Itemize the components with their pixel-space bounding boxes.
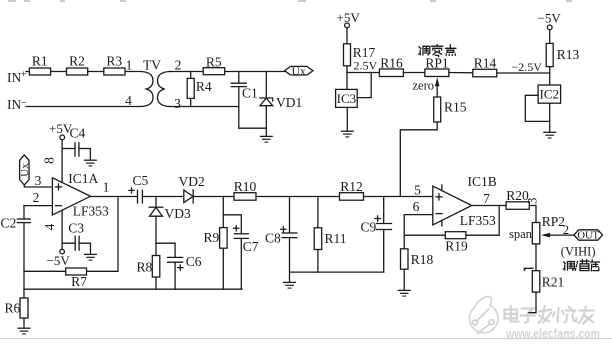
capacitor C6 — [168, 256, 183, 258]
svg-text:Ux: Ux — [19, 163, 31, 177]
resistor R4 — [187, 78, 194, 98]
svg-text:−5V: −5V — [538, 11, 562, 26]
top edge cut text specks — [8, 0, 572, 2]
svg-text:C6: C6 — [186, 254, 202, 269]
capacitor C4 — [74, 143, 76, 156]
wire C4 branch — [62, 149, 90, 160]
wire C3 branch — [62, 243, 90, 254]
wire C6 branch — [156, 243, 175, 289]
capacitor C7 — [234, 233, 248, 235]
svg-text:C3: C3 — [68, 221, 84, 236]
svg-text:C4: C4 — [70, 125, 86, 140]
svg-text:span: span — [509, 227, 533, 241]
capacitor C1 — [231, 82, 246, 84]
svg-text:R2: R2 — [69, 54, 85, 69]
svg-text:5: 5 — [414, 182, 421, 197]
svg-text:VD3: VD3 — [165, 206, 191, 221]
capacitor C8 — [282, 232, 297, 234]
wire R15 down to main line — [400, 122, 437, 197]
resistor R13 — [546, 43, 553, 66]
svg-text:C7: C7 — [243, 239, 259, 254]
transformer TV secondary winding — [158, 72, 170, 107]
resistor R7 — [66, 268, 87, 275]
svg-text:1: 1 — [103, 180, 110, 195]
svg-text:IC1B: IC1B — [468, 174, 497, 189]
svg-text:2.5V: 2.5V — [354, 59, 378, 73]
svg-text:−2.5V: −2.5V — [512, 60, 543, 74]
svg-text:www.elecfans.com: www.elecfans.com — [505, 327, 600, 341]
potentiometer RP1 — [425, 69, 449, 77]
ground under C4 — [84, 160, 97, 166]
op-amp IC1A — [52, 178, 90, 215]
watermark char dian — [505, 306, 519, 322]
wire R21 end stub — [529, 292, 536, 313]
svg-text:−: − — [21, 97, 27, 109]
-5V terminal left — [60, 249, 65, 254]
bottom rail — [24, 288, 242, 290]
svg-text:R7: R7 — [71, 274, 87, 289]
wire C1 branch — [239, 72, 266, 129]
svg-text:R5: R5 — [206, 54, 222, 69]
potentiometer RP2 — [532, 223, 540, 244]
svg-text:C1: C1 — [242, 86, 258, 101]
wire R20 to RP2 — [529, 206, 536, 223]
svg-text:6: 6 — [413, 199, 420, 214]
resistor R21 — [532, 271, 540, 292]
svg-text:R9: R9 — [204, 230, 220, 245]
wire main line — [91, 196, 433, 198]
ground under IC3 — [341, 131, 354, 137]
wire pin2 input — [24, 205, 52, 207]
svg-text:VD1: VD1 — [276, 95, 302, 110]
resistor R19 — [445, 232, 466, 239]
svg-text:IC1A: IC1A — [68, 171, 98, 186]
wire C8 branch — [289, 197, 291, 283]
wire output to R20 — [472, 205, 506, 207]
wire RP2 to R21 — [535, 244, 537, 271]
svg-text:+: + — [21, 69, 27, 81]
svg-text:R3: R3 — [106, 54, 122, 69]
wire 2.5V rail to R16 — [347, 72, 379, 74]
label tiaolingdian (zero adjust) — [419, 45, 456, 57]
svg-text:R6: R6 — [5, 300, 21, 315]
diode VD3 — [150, 207, 163, 216]
svg-text:3: 3 — [174, 96, 181, 111]
resistor R10 — [234, 193, 256, 201]
svg-text:RP2: RP2 — [542, 214, 565, 229]
bottom page rule — [0, 338, 612, 340]
svg-text:R16: R16 — [380, 55, 403, 70]
wire -5V through R13 to IC2 — [549, 30, 551, 85]
svg-text:LF353: LF353 — [73, 204, 109, 219]
svg-text:R15: R15 — [444, 99, 467, 114]
resistor R12 — [340, 193, 364, 201]
wire C9 branch — [383, 197, 385, 273]
svg-text:R12: R12 — [340, 179, 363, 194]
resistor R5 — [203, 68, 225, 75]
node OUT tag — [574, 230, 603, 240]
wire IC2 feedback loop — [525, 95, 549, 121]
svg-text:(VIHI): (VIHI) — [561, 244, 596, 258]
ground under VD1 — [260, 136, 273, 142]
svg-text:R8: R8 — [137, 260, 153, 275]
svg-text:C5: C5 — [133, 173, 149, 188]
watermark char shao — [553, 307, 577, 323]
pin 1 label rotated (tick) — [524, 267, 533, 269]
wire R18 branch — [403, 235, 405, 290]
wire R11 branch — [317, 197, 319, 273]
wire R8 branch — [155, 243, 157, 289]
wire RP1 to R14 — [449, 72, 473, 74]
wire pin6 input — [404, 215, 433, 236]
elecfans logo circle — [469, 296, 498, 334]
svg-text:1: 1 — [126, 57, 133, 72]
svg-text:TV: TV — [143, 57, 161, 72]
svg-text:C8: C8 — [265, 231, 281, 246]
svg-text:R18: R18 — [411, 252, 434, 267]
resistor R6 — [20, 298, 28, 318]
ground under C8 — [283, 282, 296, 288]
resistor R20 — [506, 202, 529, 210]
wiper arrow RP2 — [544, 234, 574, 236]
resistor R14 — [473, 69, 497, 77]
ground under R6 — [18, 328, 31, 334]
svg-text:RP1: RP1 — [425, 55, 448, 70]
svg-text:IC2: IC2 — [540, 87, 560, 102]
resistor R18 — [401, 249, 409, 269]
wire VD3 branch — [155, 197, 157, 244]
resistor R9 — [220, 228, 228, 249]
wire IN+ rail — [26, 71, 141, 73]
svg-text:VD2: VD2 — [179, 174, 205, 189]
svg-text:IN: IN — [7, 97, 21, 112]
wire IN- rail — [26, 106, 141, 108]
wire secondary bottom rail — [170, 106, 239, 108]
svg-text:7: 7 — [483, 191, 490, 206]
svg-text:Ux: Ux — [292, 66, 306, 78]
svg-text:R4: R4 — [196, 79, 212, 94]
wire R6 — [23, 289, 25, 327]
wire R14 to R13 node — [497, 72, 550, 74]
wire pin8 power — [61, 140, 63, 183]
wire IC3 to ground — [346, 107, 348, 130]
resistor R16 — [379, 69, 403, 77]
svg-text:IC3: IC3 — [337, 91, 357, 106]
wire pin3 input — [24, 185, 52, 187]
svg-text:4: 4 — [125, 93, 132, 108]
op-amp IC1B — [433, 186, 472, 225]
watermark char zi — [521, 309, 536, 323]
transformer TV primary winding — [141, 72, 153, 107]
svg-text:zero: zero — [413, 78, 435, 92]
IC3 box — [336, 89, 358, 107]
watermark char you — [579, 307, 595, 324]
svg-text:4: 4 — [42, 223, 57, 230]
svg-text:R11: R11 — [325, 231, 347, 246]
ground under C3 — [84, 254, 97, 260]
svg-text:3: 3 — [526, 198, 540, 204]
wire secondary top rail — [170, 71, 285, 73]
wire R9 branch — [222, 197, 224, 290]
svg-text:R19: R19 — [445, 239, 468, 254]
label tiaomandu (span adjust) — [563, 260, 599, 271]
resistor R11 — [314, 228, 322, 250]
svg-text:OUT: OUT — [577, 231, 599, 242]
wire C7 branch — [223, 215, 241, 289]
capacitor C9 — [377, 223, 392, 225]
svg-text:R10: R10 — [234, 179, 257, 194]
capacitor C3 — [74, 236, 76, 250]
svg-text:2: 2 — [563, 223, 569, 237]
capacitor C2 — [23, 206, 25, 290]
node Ux output tag — [285, 66, 313, 75]
diode VD1 zener — [260, 98, 273, 106]
wire R16 to RP1 — [403, 72, 425, 74]
capacitor C5 — [137, 190, 139, 203]
resistor R3 — [104, 68, 125, 75]
svg-text:C9: C9 — [361, 220, 377, 235]
svg-text:R14: R14 — [474, 56, 497, 71]
mid rail C8-R11-C9 — [290, 271, 384, 273]
svg-text:R21: R21 — [542, 274, 565, 289]
svg-text:−5V: −5V — [47, 253, 71, 268]
ground under R18 — [398, 290, 411, 296]
svg-text:2: 2 — [175, 57, 182, 72]
wire IC2 to ground — [549, 103, 551, 132]
svg-text:LF353: LF353 — [460, 213, 496, 228]
node Ux input tag (vertical) — [20, 155, 29, 185]
svg-text:IN: IN — [7, 70, 21, 85]
ground under IC2 — [543, 132, 556, 138]
svg-text:8: 8 — [42, 157, 57, 164]
wire VD1 branch — [265, 72, 267, 137]
wiper arrow RP1 — [436, 80, 438, 97]
wire +5V to R17 to IC3 — [346, 28, 348, 90]
resistor R15 — [434, 97, 441, 122]
svg-text:2: 2 — [33, 190, 40, 205]
svg-text:3: 3 — [35, 173, 42, 188]
wire IC3 feedback loop — [357, 73, 371, 98]
watermark char fa — [539, 306, 552, 323]
diode VD2 — [184, 190, 193, 203]
resistor R2 — [67, 68, 88, 75]
wire feedback R19 — [404, 206, 499, 236]
IC2 box — [538, 85, 561, 103]
resistor R8 — [152, 256, 160, 278]
wire R4 vertical — [190, 72, 192, 107]
wire pin4 power — [61, 210, 63, 249]
svg-text:R13: R13 — [557, 47, 580, 62]
svg-text:C2: C2 — [1, 215, 17, 230]
resistor R1 — [29, 68, 50, 75]
svg-text:R1: R1 — [32, 54, 48, 69]
wire feedback down from pin1 — [24, 197, 118, 272]
resistor R17 — [344, 44, 351, 66]
